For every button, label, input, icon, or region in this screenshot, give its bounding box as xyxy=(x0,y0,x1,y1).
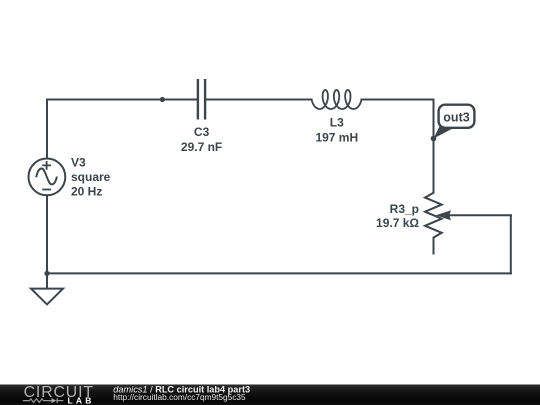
svg-text:LAB: LAB xyxy=(68,395,95,405)
potentiometer R3_p xyxy=(425,193,451,255)
net label out3 bubble xyxy=(434,105,475,139)
svg-text:V3: V3 xyxy=(71,156,86,170)
voltage source V3 xyxy=(29,159,66,196)
junction node dot ground xyxy=(44,271,49,276)
wire right vertical lower xyxy=(510,215,512,273)
wire left vertical upper (V3 top lead) xyxy=(46,100,48,159)
svg-text:R3_p: R3_p xyxy=(390,202,419,216)
junction node dot out3 xyxy=(431,136,437,142)
wire top-left horizontal xyxy=(47,99,198,101)
svg-text:197 mH: 197 mH xyxy=(315,131,358,145)
svg-text:29.7 nF: 29.7 nF xyxy=(181,140,222,154)
svg-text:http://circuitlab.com/cc7qm9t5: http://circuitlab.com/cc7qm9t5g5c35 xyxy=(113,392,246,402)
logo waveform resistor-diode xyxy=(23,398,64,403)
wire capacitor to inductor xyxy=(205,99,311,101)
ground xyxy=(31,273,63,304)
junction node dot on top wire xyxy=(160,97,165,102)
capacitor C3 xyxy=(198,79,205,120)
wire bottom horizontal xyxy=(47,272,511,274)
svg-text:20 Hz: 20 Hz xyxy=(71,185,102,199)
wire left vertical lower (V3 bottom lead) xyxy=(46,195,48,273)
inductor L3 xyxy=(312,90,362,109)
svg-text:C3: C3 xyxy=(194,125,210,139)
wire wiper horizontal xyxy=(448,214,511,216)
svg-text:L3: L3 xyxy=(330,116,344,130)
svg-text:out3: out3 xyxy=(443,111,469,125)
wire right vertical (out3 net) xyxy=(433,100,435,193)
wire inductor to top-right corner xyxy=(362,99,434,101)
svg-text:square: square xyxy=(71,170,111,184)
svg-text:19.7 kΩ: 19.7 kΩ xyxy=(376,216,419,230)
